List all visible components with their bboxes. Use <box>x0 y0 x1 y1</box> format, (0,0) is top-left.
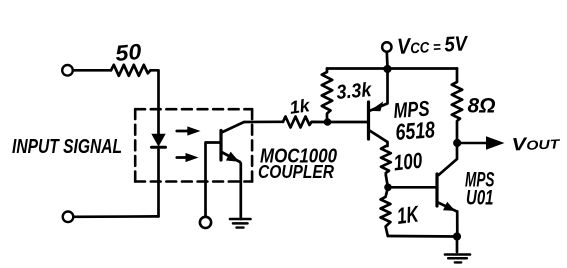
svg-text:50: 50 <box>114 39 143 66</box>
svg-text:COUPLER: COUPLER <box>258 161 335 182</box>
svg-text:100: 100 <box>392 148 424 176</box>
svg-text:8Ω: 8Ω <box>468 94 496 118</box>
svg-text:3.3k: 3.3k <box>336 79 374 104</box>
svg-text:VCC = 5V: VCC = 5V <box>396 30 469 59</box>
svg-text:1K: 1K <box>395 200 421 229</box>
svg-text:6518: 6518 <box>395 116 436 145</box>
svg-text:VOUT: VOUT <box>511 132 561 155</box>
svg-text:U01: U01 <box>466 186 494 209</box>
svg-text:INPUT SIGNAL: INPUT SIGNAL <box>12 135 122 158</box>
svg-text:1k: 1k <box>288 95 312 118</box>
